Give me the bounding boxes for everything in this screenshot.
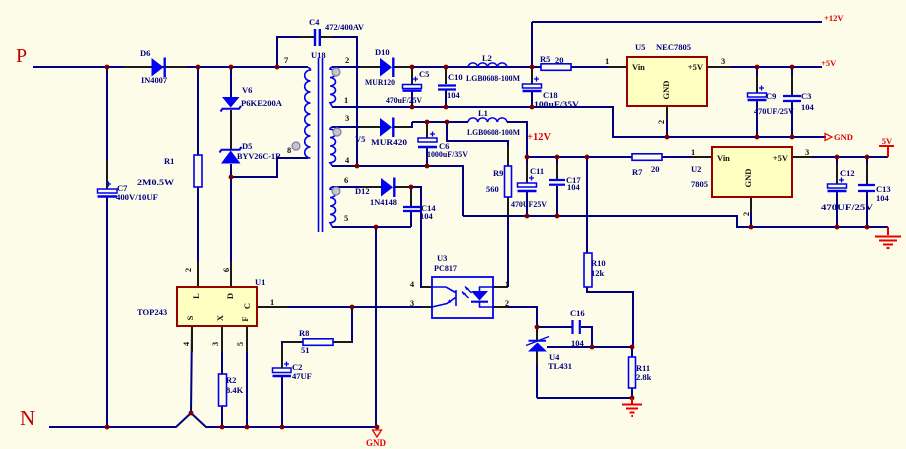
optocoupler U3 transistor bbox=[432, 287, 456, 307]
svg-text:6: 6 bbox=[221, 268, 231, 272]
wire C3 pin bbox=[791, 75, 793, 95]
ground symbol R11 bbox=[622, 398, 642, 416]
svg-text:R5: R5 bbox=[540, 54, 550, 64]
svg-text:Vin: Vin bbox=[717, 153, 730, 163]
svg-text:U1: U1 bbox=[255, 277, 265, 287]
svg-text:20: 20 bbox=[651, 164, 660, 174]
svg-text:D10: D10 bbox=[375, 47, 390, 57]
wire L1 out corner bbox=[507, 122, 527, 157]
capacitor C9 bbox=[748, 86, 767, 101]
svg-text:1000uF/35V: 1000uF/35V bbox=[427, 149, 469, 159]
svg-text:+12V: +12V bbox=[527, 132, 551, 143]
svg-text:104: 104 bbox=[567, 182, 581, 192]
svg-text:C12: C12 bbox=[840, 168, 855, 178]
diode D12 bbox=[381, 178, 394, 198]
wire U1 pin stubs bbox=[257, 306, 287, 308]
resistor R2 bbox=[219, 374, 227, 406]
svg-text:560: 560 bbox=[486, 184, 499, 194]
capacitor C16 bbox=[573, 320, 580, 334]
wire R9 bottom to PC817 pin1 bbox=[507, 197, 509, 287]
wire +12V rail to R7 bbox=[527, 156, 632, 158]
svg-text:6: 6 bbox=[344, 175, 348, 185]
wire C6 bottom lead bbox=[426, 148, 428, 166]
winding2 phase dot bbox=[333, 128, 341, 136]
capacitor C14 bbox=[403, 207, 420, 211]
svg-text:GND: GND bbox=[366, 438, 387, 448]
wire C16 right drop bbox=[581, 327, 592, 347]
wire U2 pin stubs bbox=[692, 156, 712, 158]
svg-text:D5: D5 bbox=[242, 141, 252, 151]
svg-text:L2: L2 bbox=[482, 53, 492, 63]
svg-text:7805: 7805 bbox=[691, 179, 708, 189]
wire +12V riser bbox=[531, 22, 533, 67]
svg-text:GND: GND bbox=[661, 81, 671, 100]
wire winding2 top to V5 bbox=[332, 126, 380, 128]
op-amp U1 TOP243 box bbox=[177, 287, 257, 326]
svg-text:51: 51 bbox=[301, 345, 310, 355]
wire PC817 pin2 to TL431 bbox=[493, 307, 537, 327]
wire D10 pins bbox=[360, 66, 380, 68]
wire C17 pin bbox=[556, 163, 558, 179]
svg-text:MUR120: MUR120 bbox=[365, 77, 395, 87]
wire C14 bottom lead bbox=[410, 212, 412, 227]
svg-text:470UF25V: 470UF25V bbox=[511, 199, 548, 209]
resistor R10 bbox=[584, 253, 592, 287]
wire C6 top lead bbox=[426, 122, 428, 138]
svg-text:D: D bbox=[225, 293, 235, 299]
wire D10 out to R5 bbox=[394, 66, 541, 68]
wire bias ground drop bbox=[375, 227, 377, 427]
wire D12 node to PC817 pin4 bbox=[411, 187, 432, 287]
wire D12 out bbox=[395, 186, 411, 188]
transformer U18 primary coil bbox=[305, 68, 311, 159]
wire R10 bottom route bbox=[587, 287, 633, 347]
svg-text:104: 104 bbox=[420, 211, 434, 221]
wire TL431 anode to R11 bottom bbox=[537, 397, 632, 399]
svg-text:V5: V5 bbox=[355, 134, 365, 144]
wire R1 bottom to U1 pin2 bbox=[197, 187, 199, 287]
wire R5 to U5 pin1 bbox=[571, 66, 627, 68]
svg-text:C11: C11 bbox=[530, 166, 544, 176]
diode D10 bbox=[380, 58, 393, 78]
regulator U2 box bbox=[712, 147, 792, 197]
winding1 phase dot bbox=[332, 68, 340, 76]
regulator U5 box bbox=[627, 57, 707, 106]
svg-text:X: X bbox=[215, 314, 225, 321]
wire TL431 cathode lead bbox=[536, 327, 538, 341]
svg-text:U18: U18 bbox=[311, 50, 326, 60]
resistor R8 bbox=[303, 339, 333, 346]
wire C5 lead bbox=[411, 67, 413, 85]
resistor R1 bbox=[194, 155, 202, 187]
svg-text:2M0.5W: 2M0.5W bbox=[137, 177, 175, 187]
svg-text:R10: R10 bbox=[591, 258, 606, 268]
svg-text:BYV26C-1R: BYV26C-1R bbox=[237, 151, 282, 161]
svg-text:104: 104 bbox=[447, 90, 461, 100]
svg-text:400V/10UF: 400V/10UF bbox=[116, 192, 158, 202]
wire secondary ground rail bbox=[463, 216, 888, 227]
wire C18 pin bbox=[531, 68, 533, 84]
wire R11 top lead bbox=[631, 347, 633, 357]
wire C13 bottom lead bbox=[866, 192, 868, 227]
wire U5 pin3 +5V rail bbox=[707, 66, 822, 68]
resistor R9 bbox=[505, 166, 512, 197]
svg-text:12k: 12k bbox=[591, 268, 605, 278]
inductor L2 bbox=[468, 63, 507, 67]
svg-text:GND: GND bbox=[834, 132, 853, 142]
inductor L1 bbox=[468, 118, 507, 122]
wire C7 top pin bbox=[106, 160, 108, 189]
svg-text:5V: 5V bbox=[882, 136, 893, 146]
svg-text:U5: U5 bbox=[635, 42, 645, 52]
capacitor C5 bbox=[403, 77, 422, 91]
diode D5 bbox=[220, 147, 242, 164]
wire V6 top lead bbox=[230, 67, 232, 97]
wire C12 top lead bbox=[836, 157, 838, 184]
wire C9 bottom lead bbox=[756, 101, 758, 137]
wire R8 pins bbox=[333, 341, 352, 343]
svg-text:3: 3 bbox=[721, 56, 725, 66]
svg-text:LGB0608-100M: LGB0608-100M bbox=[467, 127, 520, 137]
wire P rail bbox=[33, 66, 308, 68]
svg-text:R2: R2 bbox=[226, 375, 236, 385]
wire 12V pre-L1 rail bbox=[412, 121, 468, 123]
wire winding3 top to D12 bbox=[332, 186, 381, 188]
wire D6 pins bbox=[123, 66, 151, 68]
svg-text:+12V: +12V bbox=[824, 13, 844, 23]
power GND net arrow right bbox=[825, 134, 832, 141]
capacitor C7 bbox=[98, 182, 118, 197]
svg-text:L: L bbox=[191, 293, 201, 299]
wire winding1 return rail bbox=[332, 107, 826, 137]
wire C12 pin bbox=[836, 163, 838, 184]
svg-text:GND: GND bbox=[743, 169, 753, 188]
junction dots bbox=[105, 65, 110, 70]
svg-text:5: 5 bbox=[344, 213, 348, 223]
wire R1 top lead bbox=[197, 67, 199, 155]
svg-text:L1: L1 bbox=[478, 108, 488, 118]
power 5V bar bbox=[879, 146, 894, 157]
wire C11 top lead bbox=[526, 157, 528, 183]
svg-text:PC817: PC817 bbox=[434, 263, 458, 273]
wire PC817 pin stubs bbox=[422, 286, 432, 288]
wire C17 top lead bbox=[556, 157, 558, 179]
svg-text:1: 1 bbox=[505, 279, 509, 289]
capacitor C4 bbox=[315, 29, 320, 46]
wire R7 to U2 pin1 bbox=[662, 156, 712, 158]
capacitor C10 bbox=[438, 86, 456, 90]
svg-text:U2: U2 bbox=[691, 164, 701, 174]
wire C18 top lead bbox=[531, 67, 533, 84]
diode V5 bbox=[380, 118, 393, 138]
transformer U18 core bbox=[319, 58, 323, 232]
transformer U18 winding2 coil bbox=[330, 127, 336, 166]
wire U1 pin5 down bbox=[246, 326, 248, 427]
wire C4 right to winding2 return bbox=[321, 37, 357, 166]
wire C17 bottom lead bbox=[556, 186, 558, 216]
svg-text:104: 104 bbox=[876, 193, 890, 203]
svg-text:1: 1 bbox=[270, 297, 274, 307]
svg-text:1: 1 bbox=[344, 95, 348, 105]
wire C16 left bbox=[537, 326, 572, 328]
wire clamp node to U1 pin6 bbox=[230, 177, 232, 287]
transformer U18 winding1 coil bbox=[330, 67, 335, 107]
capacitor C2 bbox=[273, 362, 292, 377]
wire TL431 ref rail bbox=[547, 346, 632, 348]
wire C2 bottom lead bbox=[281, 377, 283, 427]
wire C9 top lead bbox=[756, 67, 758, 93]
diode D6 bbox=[152, 58, 165, 78]
wire C14 pin bbox=[410, 190, 412, 206]
svg-text:470UF/25V: 470UF/25V bbox=[754, 106, 795, 116]
optocoupler U3 light arrows bbox=[462, 287, 472, 299]
wire winding2 return bbox=[332, 166, 463, 216]
svg-text:+5V: +5V bbox=[688, 62, 704, 72]
wire U5 pin2 down bbox=[666, 106, 668, 137]
wire C18 bottom lead bbox=[531, 92, 533, 107]
wire U5 pin stubs bbox=[607, 66, 627, 68]
wire D12 pins bbox=[362, 186, 381, 188]
wire R11 bottom lead bbox=[631, 388, 633, 398]
svg-text:Vin: Vin bbox=[632, 62, 645, 72]
wire C7 branch vertical bbox=[106, 67, 108, 189]
wire D5 to clamp node bbox=[230, 164, 232, 177]
wire C2 pin bbox=[281, 345, 283, 368]
svg-text:47UF: 47UF bbox=[292, 371, 312, 381]
svg-text:R1: R1 bbox=[164, 156, 174, 166]
wire +12V top rail bbox=[532, 21, 822, 23]
wire U1 pin3 to R2 bbox=[221, 326, 223, 374]
svg-text:LGB0608-100M: LGB0608-100M bbox=[466, 73, 520, 83]
svg-text:TOP243: TOP243 bbox=[137, 307, 167, 317]
wire C7 bottom to rail bbox=[106, 197, 108, 427]
wire U2 pin2 down bbox=[750, 197, 752, 227]
svg-text:C4: C4 bbox=[309, 17, 320, 27]
wire TL431 anode down bbox=[536, 351, 538, 398]
wire V6 D5 pins bbox=[230, 110, 232, 149]
svg-text:472/400AV: 472/400AV bbox=[325, 22, 365, 32]
wire winding1 top to D10 bbox=[332, 66, 380, 68]
svg-text:IN4007: IN4007 bbox=[141, 75, 168, 85]
svg-text:5: 5 bbox=[235, 342, 245, 346]
wire C13 pin bbox=[866, 163, 868, 184]
resistor R5 bbox=[541, 64, 571, 71]
capacitor C3 bbox=[783, 96, 801, 101]
wire C3 top lead bbox=[791, 67, 793, 95]
wire C5 pin bbox=[411, 68, 413, 85]
svg-text:2: 2 bbox=[183, 268, 193, 272]
svg-text:F: F bbox=[240, 316, 250, 321]
wire U2 pin3 5V out bbox=[792, 156, 888, 158]
wire U1 pinC to PC817 pin3 bbox=[287, 306, 432, 308]
svg-text:104: 104 bbox=[571, 338, 585, 348]
svg-text:104: 104 bbox=[801, 102, 815, 112]
wire C10 lead bbox=[445, 67, 447, 84]
svg-text:C5: C5 bbox=[419, 69, 429, 79]
wire U1 pin4 down bbox=[191, 326, 192, 413]
svg-text:2: 2 bbox=[505, 298, 509, 308]
wire C4 pins bbox=[299, 36, 314, 38]
wire C3 bottom lead bbox=[791, 102, 793, 137]
wire C12 bottom lead bbox=[836, 192, 838, 227]
wire R2 bottom bbox=[221, 406, 223, 427]
svg-text:8: 8 bbox=[287, 145, 291, 155]
svg-text:1: 1 bbox=[691, 147, 695, 157]
wire TL431 pins bbox=[536, 329, 538, 341]
svg-text:2: 2 bbox=[656, 120, 666, 124]
wire C4 left branch bbox=[277, 37, 314, 67]
svg-text:C16: C16 bbox=[570, 308, 585, 318]
wire C10 pin bbox=[445, 68, 447, 84]
svg-text:R7: R7 bbox=[632, 167, 643, 177]
capacitor C6 bbox=[418, 132, 437, 148]
wire V6-D5 link bbox=[230, 110, 232, 149]
wire C5 bottom lead bbox=[411, 91, 413, 107]
wire V5 pins bbox=[360, 126, 380, 128]
svg-text:TL431: TL431 bbox=[548, 361, 572, 371]
wire R8 left to C2 bbox=[282, 342, 303, 368]
svg-text:2.8k: 2.8k bbox=[636, 372, 652, 382]
resistor R11 bbox=[629, 357, 636, 388]
svg-text:D6: D6 bbox=[140, 48, 150, 58]
svg-text:R8: R8 bbox=[299, 328, 309, 338]
svg-text:R9: R9 bbox=[493, 168, 503, 178]
wire C11 pin bbox=[526, 163, 528, 183]
winding3 phase dot bbox=[332, 187, 340, 195]
svg-text:C: C bbox=[242, 303, 252, 309]
svg-text:+5V: +5V bbox=[773, 153, 789, 163]
optocoupler U3 box bbox=[432, 277, 493, 318]
wire N bottom rail bbox=[49, 413, 377, 427]
capacitor C11 bbox=[518, 176, 537, 192]
svg-text:+5V: +5V bbox=[821, 58, 837, 68]
TVS V6 bbox=[221, 97, 242, 112]
svg-text:S: S bbox=[185, 315, 195, 320]
svg-text:3: 3 bbox=[410, 298, 414, 308]
svg-text:U3: U3 bbox=[437, 253, 447, 263]
capacitor C13 bbox=[858, 185, 875, 191]
svg-text:20: 20 bbox=[555, 55, 564, 65]
svg-text:C3: C3 bbox=[801, 91, 811, 101]
wire C14 top lead bbox=[410, 187, 412, 206]
ground symbol right bbox=[875, 227, 901, 248]
svg-text:470uF/25V: 470uF/25V bbox=[386, 95, 423, 105]
capacitor C18 bbox=[523, 77, 542, 92]
resistor R7 bbox=[632, 154, 662, 161]
svg-text:3: 3 bbox=[805, 147, 809, 157]
svg-text:D12: D12 bbox=[355, 186, 370, 196]
svg-text:1: 1 bbox=[605, 56, 609, 66]
svg-text:3: 3 bbox=[210, 342, 220, 346]
shunt regulator U4 TL431 bbox=[526, 337, 549, 352]
svg-text:P: P bbox=[16, 45, 27, 67]
svg-text:2: 2 bbox=[741, 212, 751, 216]
optocoupler U3 LED bbox=[471, 287, 493, 307]
wire C10 bottom lead bbox=[445, 90, 447, 107]
transformer U18 winding3 coil bbox=[330, 187, 336, 227]
wire C9 pin bbox=[756, 75, 758, 93]
wire pinC node to R8 bbox=[333, 307, 352, 342]
svg-text:3: 3 bbox=[345, 113, 349, 123]
capacitor C17 bbox=[549, 180, 565, 185]
wire C6 pin bbox=[426, 123, 428, 138]
svg-text:C9: C9 bbox=[766, 91, 776, 101]
wire feedback tap to R9 bbox=[447, 122, 508, 166]
wire V5 out jog bbox=[394, 122, 412, 127]
wire winding3 return bbox=[332, 226, 411, 228]
capacitor C12 bbox=[828, 178, 847, 192]
ground GND arrow bottom center bbox=[373, 430, 382, 437]
wire R9 pins bbox=[507, 146, 509, 166]
svg-text:P6KE200A: P6KE200A bbox=[241, 98, 283, 108]
svg-text:470UF/25V: 470UF/25V bbox=[821, 202, 874, 212]
wire C11 bottom lead bbox=[526, 192, 528, 216]
svg-text:N: N bbox=[20, 406, 35, 430]
svg-text:2: 2 bbox=[345, 55, 349, 65]
wire R10 top lead bbox=[586, 157, 588, 253]
wire clamp node to pin8 bbox=[231, 158, 308, 177]
svg-text:1N4148: 1N4148 bbox=[370, 197, 397, 207]
svg-text:8.4K: 8.4K bbox=[226, 385, 244, 395]
transformer primary phase dot bbox=[292, 142, 300, 150]
svg-text:NEC7805: NEC7805 bbox=[656, 42, 691, 52]
svg-text:C10: C10 bbox=[448, 72, 463, 82]
svg-text:V6: V6 bbox=[242, 85, 252, 95]
svg-text:MUR420: MUR420 bbox=[371, 137, 407, 147]
svg-text:100uF/35V: 100uF/35V bbox=[534, 99, 580, 109]
wire C13 top lead bbox=[866, 157, 868, 184]
